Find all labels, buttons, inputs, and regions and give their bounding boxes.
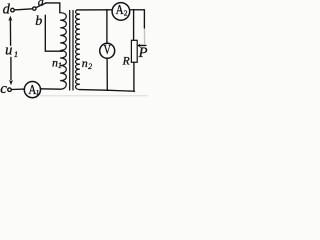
svg-text:u: u	[5, 42, 12, 58]
wire top feed to R box	[133, 10, 135, 41]
u1 arrow upper, arrowhead up	[9, 20, 11, 46]
ammeter A1	[24, 82, 40, 98]
svg-text:2: 2	[124, 9, 128, 18]
svg-text:V: V	[104, 42, 112, 57]
svg-text:2: 2	[88, 62, 92, 71]
junction bottom V branch	[106, 89, 108, 91]
svg-text:1: 1	[36, 88, 40, 97]
svg-text:n: n	[82, 56, 88, 70]
scan artifact line	[40, 95, 148, 96]
wire a to transformer primary top	[46, 3, 60, 13]
svg-text:P: P	[138, 45, 148, 61]
wire secondary top left of A2	[77, 9, 112, 11]
svg-text:a: a	[38, 0, 44, 8]
transformer core	[69, 11, 71, 91]
svg-text:b: b	[35, 14, 42, 29]
wire d to switch pivot	[14, 9, 32, 10]
wire A2 to right corner	[130, 10, 145, 28]
primary coil n1	[60, 13, 66, 90]
wire V branch upper	[106, 10, 108, 43]
junction top R branch	[133, 9, 135, 11]
svg-text:c: c	[0, 81, 7, 97]
switch pivot contact	[33, 7, 36, 10]
wire V branch lower	[106, 58, 108, 90]
terminal d	[11, 8, 15, 12]
wire secondary bottom	[79, 90, 134, 92]
slider arrow to R	[140, 44, 146, 46]
ammeter A2	[112, 3, 130, 21]
svg-text:d: d	[3, 2, 11, 18]
junction top V branch	[106, 9, 108, 11]
secondary coil n2	[76, 10, 80, 90]
wire R box bottom	[133, 62, 135, 91]
resistor R box	[131, 40, 137, 62]
wire right faded segment	[143, 28, 145, 44]
u1 arrow lower, arrowhead down	[10, 57, 12, 80]
terminal c	[8, 88, 12, 92]
svg-text:1: 1	[58, 61, 62, 70]
voltmeter V	[100, 43, 115, 58]
svg-text:R: R	[122, 55, 130, 67]
svg-text:1: 1	[14, 49, 18, 59]
wire primary bottom	[40, 88, 61, 90]
switch blade	[36, 3, 46, 8]
wire b tap to primary coil	[45, 15, 62, 51]
wire A1 to c	[11, 88, 24, 90]
